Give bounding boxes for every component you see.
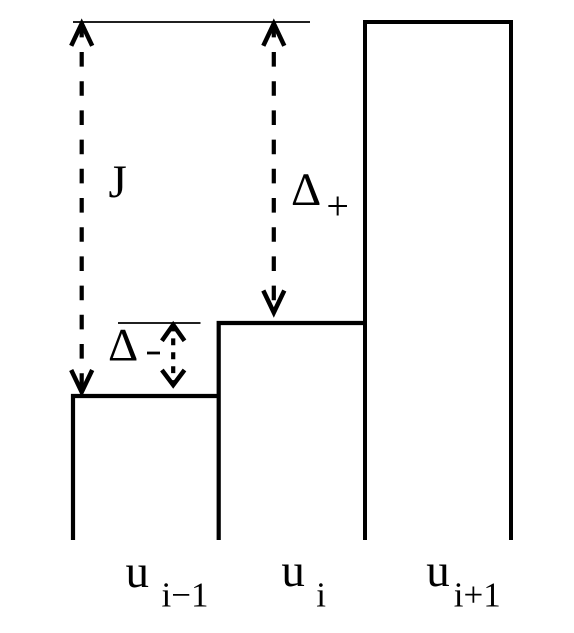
svg-text:Δ: Δ xyxy=(108,320,138,372)
svg-text:J: J xyxy=(109,156,127,208)
svg-text:i−1: i−1 xyxy=(162,576,209,615)
arrowhead J bottom xyxy=(71,370,92,392)
arrowhead Delta+ top xyxy=(263,24,284,46)
u_i level extension thin line xyxy=(118,322,201,324)
svg-text:i: i xyxy=(316,576,326,615)
svg-text:u: u xyxy=(281,545,305,597)
dashed arrow Delta- shaft xyxy=(171,325,175,386)
step u_{i-1} outline xyxy=(73,396,219,540)
arrowhead J top xyxy=(71,24,92,46)
svg-text:u: u xyxy=(426,545,450,597)
step u_i outline xyxy=(219,323,366,540)
arrowhead Delta+ bottom xyxy=(263,291,284,313)
arrowhead Delta- bottom xyxy=(162,370,185,385)
svg-text:i+1: i+1 xyxy=(454,576,501,615)
arrowhead Delta- top xyxy=(162,325,185,341)
dashed arrow J shaft xyxy=(80,23,84,392)
top reference level thin line xyxy=(73,21,310,23)
svg-text:+: + xyxy=(326,183,349,228)
step u_{i+1} outline xyxy=(365,22,511,540)
dashed arrow Delta+ shaft xyxy=(272,23,276,313)
svg-text:Δ: Δ xyxy=(291,164,321,216)
svg-text:u: u xyxy=(126,546,150,598)
